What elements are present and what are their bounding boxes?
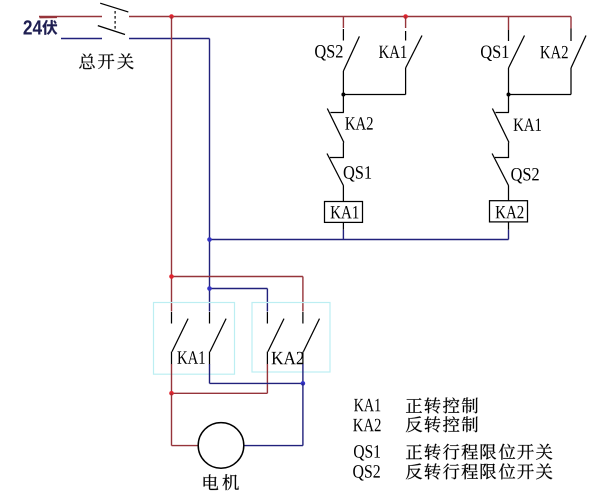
wire link QS1/KA2 parallel join bbox=[509, 94, 572, 96]
label 电机 bbox=[204, 474, 239, 490]
legend text 反转行程限位开关 bbox=[406, 463, 552, 479]
wire red feed to reverse contact bbox=[172, 277, 303, 312]
KA1 power contact pole 1 bbox=[172, 312, 189, 364]
node red motor junction bbox=[169, 391, 174, 396]
label KA2 (NC) bbox=[345, 117, 372, 129]
label QS1 bbox=[481, 45, 508, 60]
legend QS1 bbox=[354, 445, 380, 460]
label QS1 (NC) bbox=[344, 166, 371, 181]
wire blue return from switch bbox=[129, 38, 210, 40]
label KA2 (contact) bbox=[540, 46, 567, 58]
contact group box KA2 (cyan) bbox=[252, 303, 330, 373]
wire blue motor feed bbox=[210, 364, 303, 383]
relay contact KA1 (NO, self-hold) bbox=[406, 31, 422, 95]
legend QS2 bbox=[353, 465, 380, 480]
node blue bus / blue riser bbox=[207, 237, 212, 242]
node red bus / branch KA1 coil feed bbox=[403, 14, 408, 19]
label 总开关 bbox=[79, 53, 133, 69]
relay contact KA1 (NC interlock) bbox=[492, 95, 509, 158]
label QS2 bbox=[315, 45, 342, 60]
wire red stub KA2-contact branch / bus end bbox=[570, 17, 572, 29]
motor M (circle) bbox=[198, 423, 244, 469]
label QS2 (NC) bbox=[511, 168, 538, 183]
contact group box KA1 (cyan) bbox=[154, 303, 235, 375]
relay coil KA2 bbox=[490, 201, 528, 222]
label KA1 (NC) bbox=[514, 118, 541, 130]
wire red stub KA1-contact branch bbox=[405, 17, 407, 29]
node blue riser / cross feed bbox=[207, 286, 212, 291]
label 24V supply bbox=[23, 20, 57, 35]
wire blue riser bbox=[209, 39, 211, 312]
wire blue L- feed bbox=[61, 38, 102, 40]
limit switch QS1 (NC contact) bbox=[327, 154, 344, 202]
relay coil KA1 bbox=[325, 202, 363, 223]
wire coil KA2 to blue bus bbox=[508, 222, 510, 240]
KA1 power contact pole 2 bbox=[210, 312, 227, 364]
wire red top bus bbox=[129, 16, 571, 18]
legend text 正转控制 bbox=[406, 397, 478, 413]
node parallel join right bbox=[507, 93, 511, 97]
wire red motor feed bbox=[172, 364, 268, 393]
limit switch QS1 (NO contact) bbox=[509, 30, 525, 95]
main switch lower blade bbox=[98, 26, 125, 35]
node blue motor junction bbox=[301, 381, 306, 386]
legend text 正转行程限位开关 bbox=[406, 444, 552, 460]
node red bus / main red riser bbox=[169, 14, 174, 19]
legend text 反转控制 bbox=[406, 416, 478, 432]
node parallel join left bbox=[341, 93, 345, 97]
wire link QS2/KA1 parallel join bbox=[343, 94, 405, 96]
label KA2 (power contacts) bbox=[272, 352, 304, 364]
node red riser / cross feed bbox=[169, 274, 174, 279]
label KA1 (power contacts) bbox=[177, 351, 204, 363]
KA2 power contact pole 2 bbox=[303, 312, 320, 364]
limit switch QS2 (NC contact) bbox=[492, 154, 509, 201]
wire red stub QS2 branch bbox=[342, 17, 344, 29]
wire coil KA1 to blue bus bbox=[342, 222, 344, 239]
wire blue to motor terminal bbox=[244, 383, 303, 445]
main switch upper blade bbox=[100, 3, 128, 12]
limit switch QS2 (NO contact) bbox=[343, 29, 359, 95]
main switch mechanical link (dashed) bbox=[114, 11, 116, 31]
KA2 power contact pole 1 bbox=[267, 312, 284, 364]
wire blue feed to reverse contact bbox=[210, 289, 268, 312]
wire blue coil-return bus bbox=[210, 239, 509, 241]
relay contact KA2 (NO, self-hold) bbox=[571, 29, 586, 95]
legend KA1 bbox=[354, 399, 380, 411]
legend KA2 bbox=[353, 419, 380, 431]
wire red riser bbox=[171, 17, 173, 312]
relay contact KA2 (NC interlock) bbox=[327, 95, 344, 158]
label KA1 (contact) bbox=[379, 46, 406, 58]
wire red stub QS1 branch bbox=[508, 17, 510, 31]
wire red to motor terminal bbox=[172, 393, 199, 445]
wire red L+ feed bbox=[39, 17, 102, 18]
